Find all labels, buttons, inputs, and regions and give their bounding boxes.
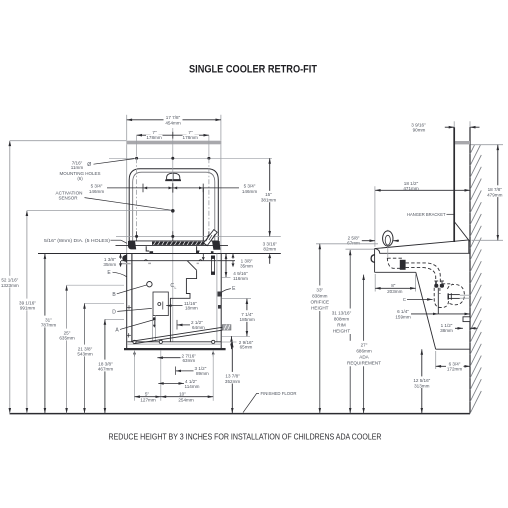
svg-text:SINGLE COOLER RETRO-FIT: SINGLE COOLER RETRO-FIT: [189, 64, 317, 76]
svg-text:SENSOR: SENSOR: [59, 196, 79, 201]
svg-text:185mm: 185mm: [240, 317, 255, 322]
svg-text:686mm: 686mm: [356, 349, 371, 354]
svg-text:D: D: [112, 310, 116, 316]
svg-text:203mm: 203mm: [387, 289, 402, 294]
svg-text:31 13/16": 31 13/16": [332, 311, 352, 316]
svg-text:63mm: 63mm: [183, 358, 196, 363]
svg-text:18mm: 18mm: [185, 306, 198, 311]
svg-text:65mm: 65mm: [240, 345, 253, 350]
svg-text:ORIFICE: ORIFICE: [310, 299, 329, 304]
svg-text:467mm: 467mm: [98, 367, 113, 372]
svg-text:114mm: 114mm: [185, 384, 200, 389]
svg-text:FINISHED FLOOR: FINISHED FLOOR: [261, 391, 297, 396]
svg-text:8": 8": [391, 283, 396, 288]
svg-text:35mm: 35mm: [103, 262, 116, 267]
svg-text:479mm: 479mm: [487, 192, 502, 197]
svg-text:38mm: 38mm: [440, 328, 453, 333]
svg-text:REDUCE HEIGHT BY 3 INCHES FOR: REDUCE HEIGHT BY 3 INCHES FOR INSTALLATI…: [109, 431, 382, 441]
svg-text:RIM: RIM: [337, 322, 346, 327]
svg-text:(6): (6): [77, 176, 83, 181]
svg-text:454mm: 454mm: [165, 120, 180, 125]
svg-text:178mm: 178mm: [183, 135, 198, 140]
svg-text:C: C: [403, 297, 406, 302]
svg-text:146mm: 146mm: [242, 189, 257, 194]
svg-text:10": 10": [179, 392, 186, 397]
svg-text:635mm: 635mm: [59, 336, 74, 341]
svg-text:REQUIREMENT: REQUIREMENT: [347, 360, 381, 365]
svg-text:543mm: 543mm: [77, 352, 92, 357]
svg-text:E: E: [107, 270, 111, 276]
svg-text:27": 27": [361, 343, 368, 348]
svg-text:67mm: 67mm: [347, 240, 360, 245]
svg-text:146mm: 146mm: [89, 189, 104, 194]
svg-text:E: E: [232, 286, 236, 292]
svg-text:82mm: 82mm: [263, 246, 276, 251]
svg-text:HEIGHT: HEIGHT: [311, 305, 329, 310]
svg-text:11mm: 11mm: [71, 165, 84, 170]
svg-text:808mm: 808mm: [334, 317, 349, 322]
svg-text:313mm: 313mm: [414, 383, 429, 388]
svg-text:5": 5": [145, 392, 150, 397]
svg-text:178mm: 178mm: [146, 135, 161, 140]
svg-text:L: L: [175, 286, 177, 290]
svg-text:172mm: 172mm: [447, 367, 462, 372]
svg-text:352mm: 352mm: [225, 379, 240, 384]
svg-text:33": 33": [316, 288, 323, 293]
svg-text:HEIGHT: HEIGHT: [333, 328, 351, 333]
svg-text:159mm: 159mm: [395, 314, 410, 319]
svg-text:89mm: 89mm: [196, 371, 209, 376]
svg-text:64mm: 64mm: [192, 325, 205, 330]
svg-text:B: B: [112, 292, 116, 298]
svg-text:254mm: 254mm: [178, 398, 193, 403]
svg-text:127mm: 127mm: [140, 398, 155, 403]
svg-text:1323mm: 1323mm: [1, 283, 19, 288]
svg-text:ADA: ADA: [359, 354, 369, 359]
svg-text:381mm: 381mm: [261, 197, 276, 202]
svg-text:116mm: 116mm: [233, 276, 248, 281]
svg-text:A: A: [115, 327, 119, 333]
svg-text:787mm: 787mm: [41, 323, 56, 328]
svg-text:HANGER BRACKET: HANGER BRACKET: [407, 212, 446, 217]
svg-text:90mm: 90mm: [413, 127, 426, 132]
svg-text:838mm: 838mm: [312, 294, 327, 299]
svg-text:471mm: 471mm: [403, 186, 418, 191]
svg-text:Ø: Ø: [87, 162, 91, 168]
svg-text:5/16" (8mm) DIA. (5 HOLES): 5/16" (8mm) DIA. (5 HOLES): [44, 238, 111, 243]
svg-text:991mm: 991mm: [20, 306, 35, 311]
svg-text:35mm: 35mm: [240, 263, 253, 268]
